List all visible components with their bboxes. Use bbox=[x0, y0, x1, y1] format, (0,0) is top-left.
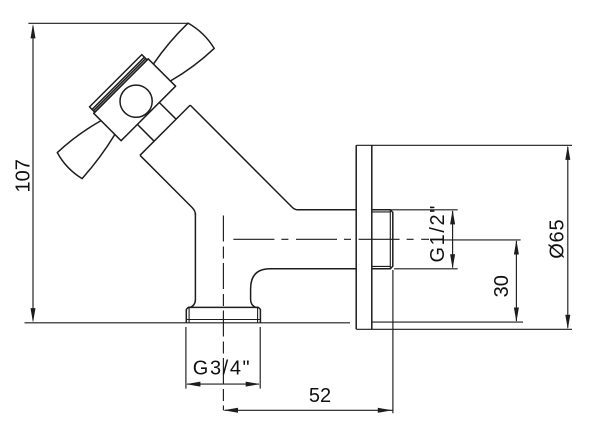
G3/4 threaded collar outline bbox=[186, 307, 260, 322]
handle hub circle bbox=[120, 85, 152, 117]
handle wing top bbox=[153, 23, 214, 81]
valve-to-body neck bbox=[137, 103, 176, 142]
dim 52 extension line bbox=[392, 270, 394, 413]
svg-text:Ø65: Ø65 bbox=[546, 219, 568, 259]
dim 107 extension top bbox=[28, 22, 188, 24]
dim 107 line bbox=[32, 26, 34, 320]
collar thread minor lines bbox=[186, 308, 260, 323]
G1/2 threaded end bbox=[372, 210, 393, 269]
svg-text:G1/2": G1/2" bbox=[427, 204, 449, 262]
bonnet detail lines bbox=[92, 57, 146, 111]
dim 30 line bbox=[515, 241, 517, 321]
wall plate bbox=[356, 145, 372, 329]
vertical outlet centerline bbox=[222, 216, 224, 411]
dim G1/2 extension lines bbox=[373, 210, 458, 269]
valve body bbox=[94, 59, 176, 141]
horizontal pipe bottom edge with fillet to outlet bbox=[251, 269, 357, 308]
dim D65 extension lines bbox=[356, 145, 572, 329]
svg-text:G3/4": G3/4" bbox=[193, 358, 251, 380]
spout body shoulder face bbox=[140, 105, 190, 155]
thread minor lines bbox=[372, 210, 391, 269]
handle wing bottom bbox=[57, 121, 115, 179]
baseline extension bbox=[25, 322, 351, 324]
svg-text:52: 52 bbox=[309, 385, 331, 407]
bonnet cap plate bbox=[90, 55, 148, 113]
dim 52 line bbox=[225, 409, 393, 411]
dim G3/4 extension lines bbox=[186, 327, 260, 389]
horizontal pipe top edge bbox=[297, 209, 356, 211]
dim 30 extension lines bbox=[372, 240, 523, 322]
dim G1/2 line bbox=[452, 211, 454, 268]
svg-text:107: 107 bbox=[13, 159, 35, 192]
horizontal centerline bbox=[233, 238, 429, 240]
outlet tube left edge bbox=[188, 213, 195, 307]
dim G3/4 line bbox=[187, 383, 259, 385]
dim D65 line bbox=[567, 147, 569, 328]
spout body sides bbox=[190, 105, 298, 210]
svg-text:30: 30 bbox=[491, 275, 513, 297]
